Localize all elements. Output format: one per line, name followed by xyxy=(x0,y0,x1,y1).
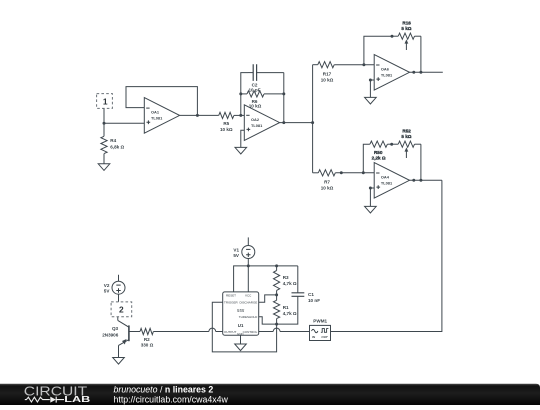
wire 555 gnd xyxy=(240,335,242,344)
voltage source V1 xyxy=(233,237,254,258)
op-amp OA6 xyxy=(374,55,409,91)
node flag 2 xyxy=(111,302,132,317)
svg-text:1: 1 xyxy=(103,96,108,106)
resistor R4 xyxy=(101,123,125,153)
svg-text:V2: V2 xyxy=(104,283,110,288)
capacitor C1 xyxy=(277,266,321,324)
resistor R3 xyxy=(274,266,297,295)
wire discharge xyxy=(259,295,277,302)
wire R7 to OA4 minus xyxy=(335,172,374,174)
potentiometer R16 xyxy=(392,20,421,50)
svg-text:CONTROL: CONTROL xyxy=(243,330,258,334)
footer banner xyxy=(0,384,540,405)
wire output to R2 xyxy=(153,328,222,331)
wire OA4 plus to ground xyxy=(370,188,374,206)
svg-text:R1: R1 xyxy=(283,305,289,310)
svg-text:LAB: LAB xyxy=(64,395,91,404)
wire OA4 output xyxy=(410,179,442,181)
wire Q3 emitter xyxy=(118,345,120,357)
node flag 1 xyxy=(97,94,113,109)
wire R17 to OA6 minus xyxy=(334,64,374,66)
resistor R6 xyxy=(241,91,284,109)
svg-text:6,8k Ω: 6,8k Ω xyxy=(110,144,124,149)
terminal dot OA4 out xyxy=(412,179,415,182)
svg-text:Q3: Q3 xyxy=(112,326,119,331)
svg-text:2,2k Ω: 2,2k Ω xyxy=(372,156,386,161)
svg-text:TL081: TL081 xyxy=(151,116,163,121)
svg-text:http://circuitlab.com/cwa4x4w: http://circuitlab.com/cwa4x4w xyxy=(114,394,229,404)
wire V2 to flag2 xyxy=(118,294,120,302)
junction OA1 out xyxy=(196,114,199,117)
svg-text:R2: R2 xyxy=(144,337,150,342)
wire supply rail xyxy=(234,266,298,292)
svg-text:brunocueto / n lineares 2: brunocueto / n lineares 2 xyxy=(114,384,214,394)
wire OA1 feedback xyxy=(126,87,197,116)
IC U1 555 xyxy=(223,292,259,336)
svg-text:330 Ω: 330 Ω xyxy=(141,343,154,348)
junction R1 bottom xyxy=(275,323,278,326)
junction OA2 minus xyxy=(239,114,242,117)
svg-text:10 nF: 10 nF xyxy=(308,298,320,303)
wire bus vertical xyxy=(312,65,314,173)
wire OA4 feedback right xyxy=(420,144,422,180)
wire OA4 feedback left xyxy=(363,144,370,173)
svg-text:4,7k Ω: 4,7k Ω xyxy=(283,311,297,316)
junction OA6 fb riser xyxy=(362,63,365,66)
potentiometer R52 xyxy=(387,128,421,158)
junction OA4 plus xyxy=(369,187,372,190)
junction OA4 out xyxy=(419,179,422,182)
svg-text:2: 2 xyxy=(119,305,124,315)
op-amp OA2 xyxy=(244,105,279,141)
resistor R17 xyxy=(313,62,335,83)
svg-text:R16: R16 xyxy=(402,20,411,25)
terminal dot OA6 out xyxy=(412,71,415,74)
svg-text:5 kΩ: 5 kΩ xyxy=(401,26,411,31)
wire bus to R7 xyxy=(313,172,319,174)
wire OA2 output xyxy=(280,122,313,124)
wire OA2 plus to ground xyxy=(241,130,245,147)
junction V1 rail xyxy=(247,264,250,267)
ground OA6 xyxy=(365,97,377,104)
wire R2 to base xyxy=(129,331,140,333)
ground U1 xyxy=(235,344,247,351)
svg-text:V1: V1 xyxy=(233,247,239,252)
wire R5 to OA2 minus xyxy=(234,114,244,116)
wire flag1 to node xyxy=(103,108,105,123)
svg-text:TL081: TL081 xyxy=(381,181,393,186)
junction OA2 out feedback xyxy=(282,121,285,124)
svg-text:OA6: OA6 xyxy=(381,67,390,72)
voltage source V2 xyxy=(104,275,125,294)
wire V1 to VCC xyxy=(247,259,249,292)
wire control to PWM xyxy=(259,328,310,331)
svg-text:R5: R5 xyxy=(223,121,229,126)
junction R3 top xyxy=(275,264,278,267)
svg-text:THRESHOLD: THRESHOLD xyxy=(239,315,258,319)
resistor R5 xyxy=(219,112,234,132)
svg-text:C1: C1 xyxy=(308,292,314,297)
svg-text:DISCHARGE: DISCHARGE xyxy=(239,301,257,305)
svg-text:10 kΩ: 10 kΩ xyxy=(321,77,334,82)
wire R4 to ground xyxy=(103,154,105,164)
svg-text:2N3906: 2N3906 xyxy=(102,332,119,337)
junction R6 left xyxy=(239,92,242,95)
ground OA4 xyxy=(365,206,377,213)
svg-text:U1: U1 xyxy=(238,323,244,328)
svg-text:555: 555 xyxy=(237,308,245,313)
wire OA6 feedback right xyxy=(420,36,422,72)
ground R4 xyxy=(98,164,110,171)
svg-text:R17: R17 xyxy=(323,71,332,76)
ground Q3 xyxy=(113,358,125,365)
svg-text:VCC: VCC xyxy=(245,294,252,298)
svg-text:R50: R50 xyxy=(374,150,383,155)
svg-text:OA2: OA2 xyxy=(251,117,260,122)
svg-text:OA4: OA4 xyxy=(381,175,390,180)
svg-text:4,7k Ω: 4,7k Ω xyxy=(283,281,297,286)
junction R7 out xyxy=(340,171,343,174)
wire C2 right riser xyxy=(283,73,285,123)
svg-text:10 kΩ: 10 kΩ xyxy=(321,185,334,190)
wire C2 left riser xyxy=(241,73,248,116)
junction OA6 plus xyxy=(369,79,372,82)
svg-text:R3: R3 xyxy=(283,275,289,280)
svg-text:R7: R7 xyxy=(324,179,330,184)
svg-text:TRIGGER: TRIGGER xyxy=(224,301,239,305)
wire node to OA1 plus xyxy=(104,122,144,124)
wire threshold xyxy=(259,317,277,324)
wire OA6 plus to ground xyxy=(370,80,374,97)
wire trigger loop xyxy=(212,302,276,352)
resistor R7 xyxy=(318,170,335,191)
ground OA2 xyxy=(235,147,247,154)
junction R3 R1 xyxy=(275,293,278,296)
wire OA6 output xyxy=(410,71,443,73)
svg-text:TL081: TL081 xyxy=(251,123,263,128)
wire Q3 collector xyxy=(117,317,119,321)
wire OA4 to PWM1 xyxy=(331,180,442,331)
transistor Q3 xyxy=(102,320,129,345)
svg-text:R4: R4 xyxy=(110,138,116,143)
capacitor C2 xyxy=(248,64,284,92)
svg-text:5V: 5V xyxy=(233,253,240,258)
junction R16 left xyxy=(391,35,394,38)
wire OA1 output xyxy=(180,114,219,116)
svg-text:TL081: TL081 xyxy=(381,73,393,78)
junction R6 right xyxy=(282,92,285,95)
resistor R1 xyxy=(274,295,297,324)
junction OA4 fb riser xyxy=(362,171,365,174)
junction R50 R52 xyxy=(390,143,393,146)
junction OA6 out xyxy=(419,71,422,74)
junction OA2 out bus xyxy=(311,121,314,124)
svg-text:RESET: RESET xyxy=(226,294,236,298)
op-amp OA1 xyxy=(144,98,179,134)
svg-text:PWM1: PWM1 xyxy=(313,319,327,324)
svg-text:R52: R52 xyxy=(402,128,411,133)
op-amp OA4 xyxy=(374,163,409,199)
wire OA6 feedback left xyxy=(364,36,392,64)
svg-text:OUTPUT: OUTPUT xyxy=(224,330,237,334)
svg-text:10 kΩ: 10 kΩ xyxy=(220,127,233,132)
node A junction xyxy=(103,122,106,125)
svg-text:5V: 5V xyxy=(104,289,111,294)
probe PWM1 xyxy=(310,319,331,341)
resistor R2 xyxy=(140,328,154,347)
svg-text:OA1: OA1 xyxy=(151,110,160,115)
svg-text:5 kΩ: 5 kΩ xyxy=(401,134,411,139)
resistor R50 xyxy=(370,141,388,161)
